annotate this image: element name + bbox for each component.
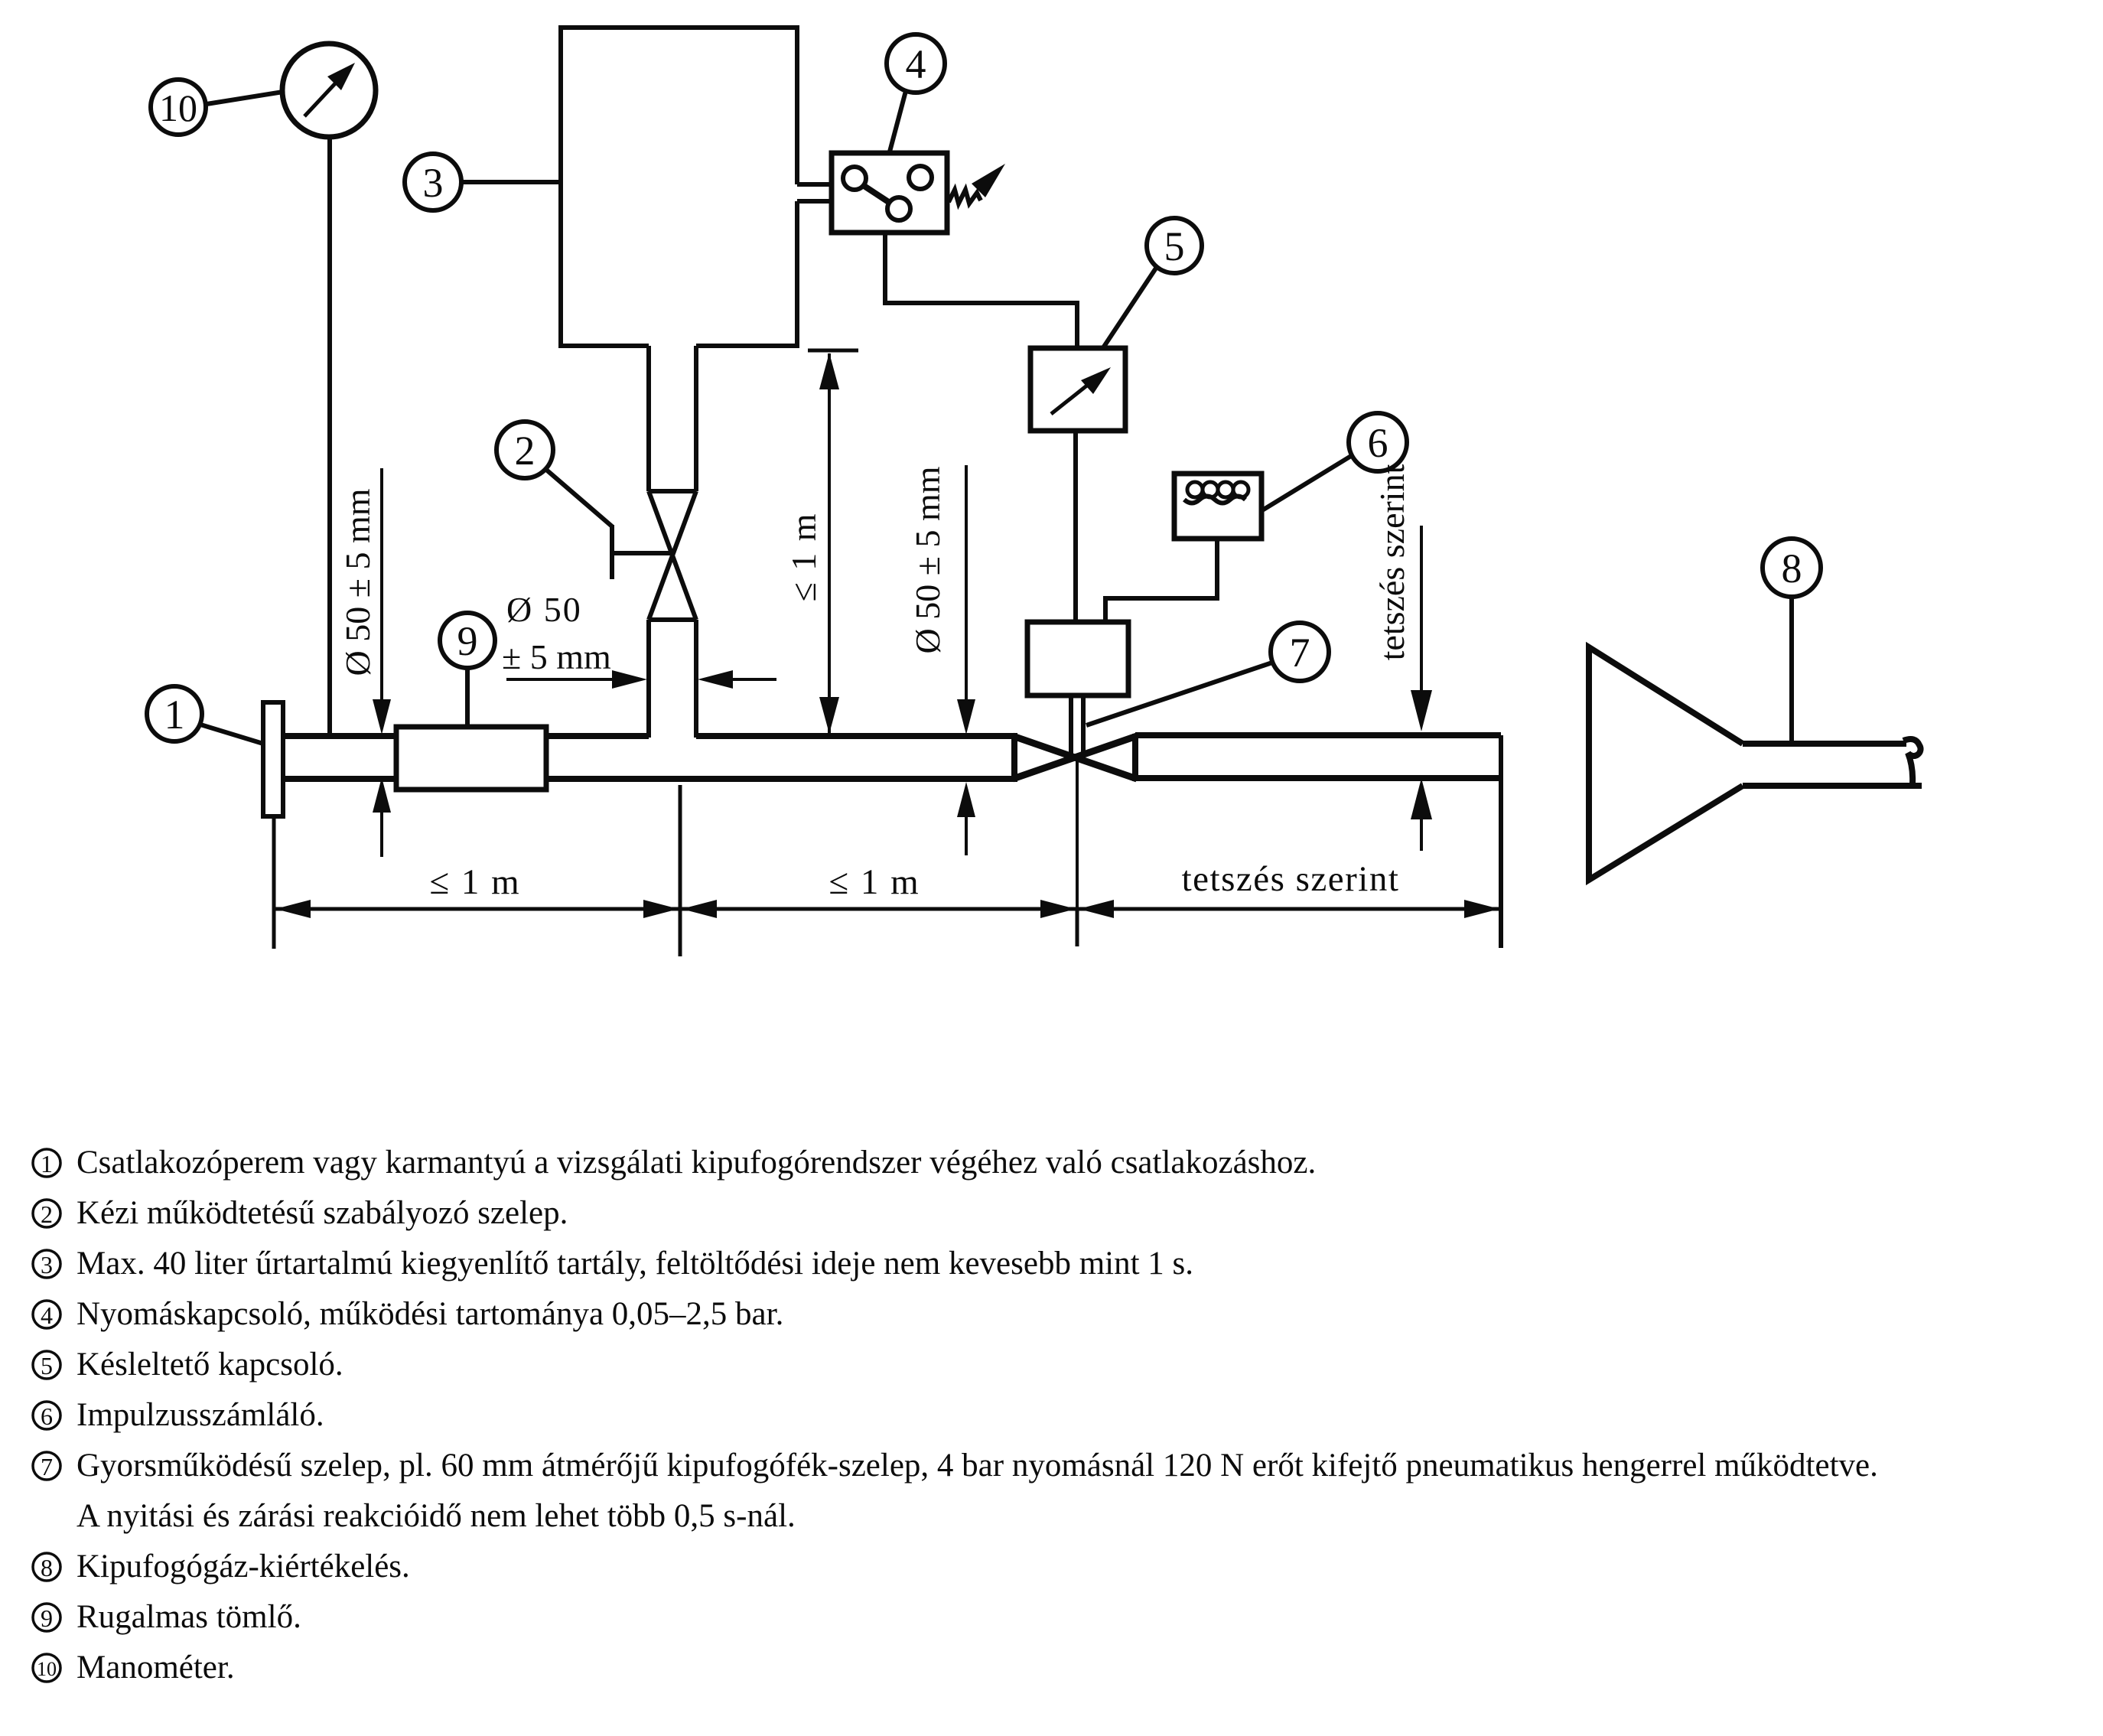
legend item 2 bbox=[33, 1195, 568, 1231]
svg-text:8: 8 bbox=[41, 1554, 53, 1581]
delay switch U5 box bbox=[1030, 348, 1125, 431]
legend item 10 bbox=[33, 1650, 235, 1686]
svg-text:2: 2 bbox=[515, 428, 536, 474]
svg-text:tetszés szerint: tetszés szerint bbox=[1372, 464, 1411, 660]
flange F1 bbox=[263, 702, 283, 816]
svg-text:Ø 50: Ø 50 bbox=[506, 590, 582, 629]
label circle 4 bbox=[887, 34, 945, 93]
extension line T center bbox=[679, 785, 682, 956]
svg-text:2: 2 bbox=[41, 1200, 53, 1228]
tank neck lower bbox=[649, 620, 696, 738]
svg-text:Ø 50 ± 5 mm: Ø 50 ± 5 mm bbox=[908, 466, 947, 653]
wire U6 to valve actuator bbox=[1105, 539, 1217, 624]
valve center line bbox=[1076, 754, 1079, 943]
dim label D50 horizontal bbox=[502, 590, 776, 689]
legend item 9 bbox=[33, 1599, 301, 1635]
pressure switch U4 box bbox=[832, 153, 947, 233]
svg-text:1: 1 bbox=[164, 692, 185, 738]
svg-text:6: 6 bbox=[41, 1402, 53, 1430]
label circle 7 bbox=[1271, 623, 1329, 681]
legend item 1 bbox=[33, 1145, 1316, 1181]
svg-text:10: 10 bbox=[159, 86, 197, 129]
svg-text:± 5 mm: ± 5 mm bbox=[502, 637, 611, 676]
svg-text:1: 1 bbox=[41, 1150, 53, 1177]
svg-text:5: 5 bbox=[41, 1352, 53, 1379]
svg-text:Kipufogógáz-kiértékelés.: Kipufogógáz-kiértékelés. bbox=[77, 1549, 410, 1585]
label circle 5 bbox=[1147, 218, 1202, 273]
leader 6 bbox=[1262, 456, 1351, 510]
valve stem bbox=[1071, 695, 1083, 755]
svg-text:Ø 50 ± 5 mm: Ø 50 ± 5 mm bbox=[338, 488, 377, 676]
legend item 7 bbox=[33, 1448, 1878, 1534]
legend item 4 bbox=[33, 1296, 783, 1332]
svg-text:7: 7 bbox=[41, 1453, 53, 1480]
label circle 1 bbox=[147, 686, 202, 741]
svg-text:≤ 1 m: ≤ 1 m bbox=[429, 862, 520, 902]
leader 5 bbox=[1102, 267, 1157, 349]
legend item 3 bbox=[33, 1246, 1193, 1282]
extension line flange bbox=[272, 816, 276, 949]
svg-text:3: 3 bbox=[423, 160, 444, 206]
svg-text:7: 7 bbox=[1290, 630, 1310, 676]
wire U4 to U5 bbox=[885, 233, 1077, 350]
leader 7 bbox=[1086, 663, 1272, 725]
dim label tetszes szerint vertical bbox=[1372, 464, 1432, 731]
right pipe bbox=[1135, 735, 1501, 778]
svg-text:Kézi működtetésű szabályozó sz: Kézi működtetésű szabályozó szelep. bbox=[77, 1195, 568, 1231]
dim arrows bottom bbox=[275, 900, 1499, 918]
leader 2 bbox=[545, 469, 612, 526]
legend item 8 bbox=[33, 1549, 410, 1585]
manometer needle bbox=[304, 63, 355, 116]
label circle 10 bbox=[151, 80, 206, 135]
leader 9 bbox=[465, 668, 470, 727]
svg-text:4: 4 bbox=[41, 1301, 53, 1329]
svg-text:10: 10 bbox=[37, 1658, 57, 1680]
dim arrow D50 middle below pipe bbox=[957, 782, 975, 855]
legend item 5 bbox=[33, 1347, 343, 1383]
svg-text:tetszés szerint: tetszés szerint bbox=[1182, 859, 1400, 899]
leader 4 bbox=[889, 91, 906, 155]
svg-text:≤ 1 m: ≤ 1 m bbox=[784, 512, 823, 601]
svg-text:Csatlakozóperem vagy karmantyú: Csatlakozóperem vagy karmantyú a vizsgál… bbox=[77, 1145, 1316, 1181]
svg-text:Manométer.: Manométer. bbox=[77, 1650, 235, 1686]
svg-text:Nyomáskapcsoló, működési tarto: Nyomáskapcsoló, működési tartománya 0,05… bbox=[77, 1296, 783, 1332]
dim label 1m vertical bbox=[784, 350, 858, 734]
legend bbox=[33, 1145, 1878, 1686]
svg-text:Gyorsműködésű szelep, pl. 60 m: Gyorsműködésű szelep, pl. 60 mm átmérőjű… bbox=[77, 1448, 1878, 1484]
pressure switch U4 stubs bbox=[797, 184, 832, 201]
svg-text:≤ 1 m: ≤ 1 m bbox=[829, 862, 920, 902]
wire U5 to valve actuator bbox=[1073, 431, 1078, 624]
dim arrow D50 left below pipe bbox=[373, 777, 391, 857]
svg-text:3: 3 bbox=[41, 1251, 53, 1278]
label circle 6 bbox=[1349, 413, 1407, 471]
valve actuator box bbox=[1027, 622, 1128, 695]
dim label D50 middle vertical bbox=[908, 465, 975, 734]
leader 3 bbox=[461, 180, 561, 184]
dim arrow tetszes below pipe bbox=[1411, 778, 1432, 851]
label circle 2 bbox=[496, 422, 553, 478]
label circle 9 bbox=[440, 613, 495, 668]
tank T3 outline bbox=[561, 28, 797, 346]
legend item 6 bbox=[33, 1397, 324, 1433]
delay switch needle bbox=[1051, 367, 1111, 414]
actuation squiggle arrow bbox=[949, 164, 1005, 204]
svg-text:Impulzusszámláló.: Impulzusszámláló. bbox=[77, 1397, 324, 1433]
hose H9 box bbox=[396, 727, 546, 790]
svg-text:4: 4 bbox=[906, 41, 926, 87]
svg-text:5: 5 bbox=[1164, 223, 1185, 269]
tank neck upper bbox=[649, 346, 696, 491]
svg-text:8: 8 bbox=[1782, 546, 1802, 591]
svg-text:Rugalmas tömlő.: Rugalmas tömlő. bbox=[77, 1599, 301, 1635]
svg-text:A nyitási és zárási reakcióidő: A nyitási és zárási reakcióidő nem lehet… bbox=[77, 1498, 796, 1534]
dim label D50 left vertical bbox=[338, 468, 391, 734]
svg-text:Késleltető kapcsoló.: Késleltető kapcsoló. bbox=[77, 1347, 343, 1383]
leader 1 bbox=[200, 725, 263, 744]
extension line valve 7 center (drawn above) extended bbox=[1076, 909, 1079, 946]
leader 10 bbox=[207, 92, 283, 104]
bottom dimension line bbox=[274, 907, 1501, 911]
label circle 3 bbox=[405, 154, 461, 210]
quick valve V7 bowtie bbox=[1013, 734, 1137, 781]
main pipe top edge bbox=[283, 733, 1017, 739]
leader 8 bbox=[1789, 597, 1794, 744]
valve V2 bowtie bbox=[649, 491, 696, 620]
valve V2 handle bbox=[610, 525, 671, 579]
funnel 8 bbox=[1589, 647, 1922, 880]
pulse counter U6 box bbox=[1174, 474, 1261, 539]
svg-text:9: 9 bbox=[41, 1604, 53, 1632]
switch contacts bbox=[843, 166, 932, 220]
manometer drop line bbox=[327, 137, 332, 734]
label circle 8 bbox=[1763, 539, 1821, 597]
manometer gauge body bbox=[282, 44, 376, 137]
svg-text:6: 6 bbox=[1368, 420, 1388, 466]
counter coil bbox=[1184, 482, 1248, 503]
svg-text:9: 9 bbox=[457, 618, 478, 664]
main pipe bottom edge bbox=[283, 776, 1017, 782]
right pipe end / extension line bbox=[1499, 735, 1503, 948]
svg-text:Max. 40 liter űrtartalmú kiegy: Max. 40 liter űrtartalmú kiegyenlítő tar… bbox=[77, 1246, 1193, 1282]
